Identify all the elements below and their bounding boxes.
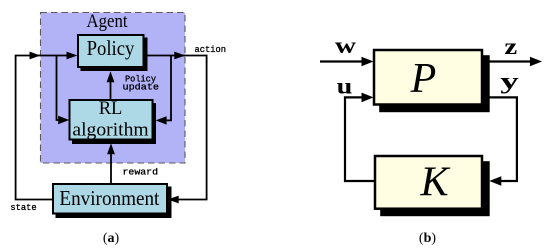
agent dashed container box — [41, 13, 186, 164]
svg-text:state: state — [10, 203, 36, 213]
box Policy (with shadow) — [78, 35, 148, 71]
label Policy — [87, 36, 135, 60]
wire state: Environment left, up, into Agent box and Policy — [16, 52, 78, 200]
svg-text:Agent: Agent — [87, 11, 129, 32]
label reward — [123, 167, 159, 178]
svg-text:u: u — [337, 74, 353, 99]
svg-text:P: P — [410, 56, 437, 102]
label u — [337, 74, 353, 99]
label y — [500, 69, 519, 94]
box K (with shadow) — [375, 156, 490, 216]
label z — [504, 34, 517, 59]
svg-text:algorithm: algorithm — [72, 120, 149, 141]
label RL — [99, 98, 123, 119]
wire y output from P down into K right — [483, 97, 517, 185]
wire reward: Environment top up into RL algorithm bottom — [107, 143, 115, 183]
wire w input to P — [320, 57, 374, 67]
label w — [335, 33, 356, 58]
svg-text:reward: reward — [123, 167, 159, 178]
svg-text:z: z — [504, 34, 517, 59]
box RL algorithm (with shadow) — [70, 100, 157, 144]
svg-text:K: K — [419, 160, 450, 206]
svg-text:(b): (b) — [419, 231, 436, 246]
svg-text:y: y — [500, 69, 519, 94]
svg-text:(a): (a) — [103, 231, 120, 246]
svg-text:w: w — [335, 33, 356, 58]
svg-text:Environment: Environment — [59, 186, 159, 210]
caption (b) — [419, 231, 436, 246]
label state — [10, 203, 36, 213]
box Environment (with shadow) — [53, 184, 172, 218]
wire policy update: RL algorithm top up into Policy bottom — [107, 71, 115, 99]
caption (a) — [103, 231, 120, 246]
label Policy update (two lines) — [123, 75, 160, 93]
wire u feedback from K left up into P — [345, 93, 374, 181]
label Environment — [59, 186, 159, 210]
svg-text:Policy: Policy — [87, 36, 135, 60]
svg-text:update: update — [123, 83, 160, 93]
wire action branch down to RL algorithm right input — [156, 56, 171, 125]
label P — [410, 56, 437, 102]
label Agent — [87, 11, 129, 32]
svg-text:RL: RL — [99, 98, 123, 119]
wire state branch down to RL algorithm left input — [57, 56, 70, 125]
svg-text:action: action — [195, 45, 227, 55]
box P (with shadow) — [374, 50, 490, 112]
wire z output from P — [483, 57, 542, 67]
label algorithm — [72, 120, 149, 141]
wire action: Policy right, out of Agent box, down, into Environment — [145, 52, 207, 204]
label K — [419, 160, 450, 206]
label action — [195, 45, 227, 55]
